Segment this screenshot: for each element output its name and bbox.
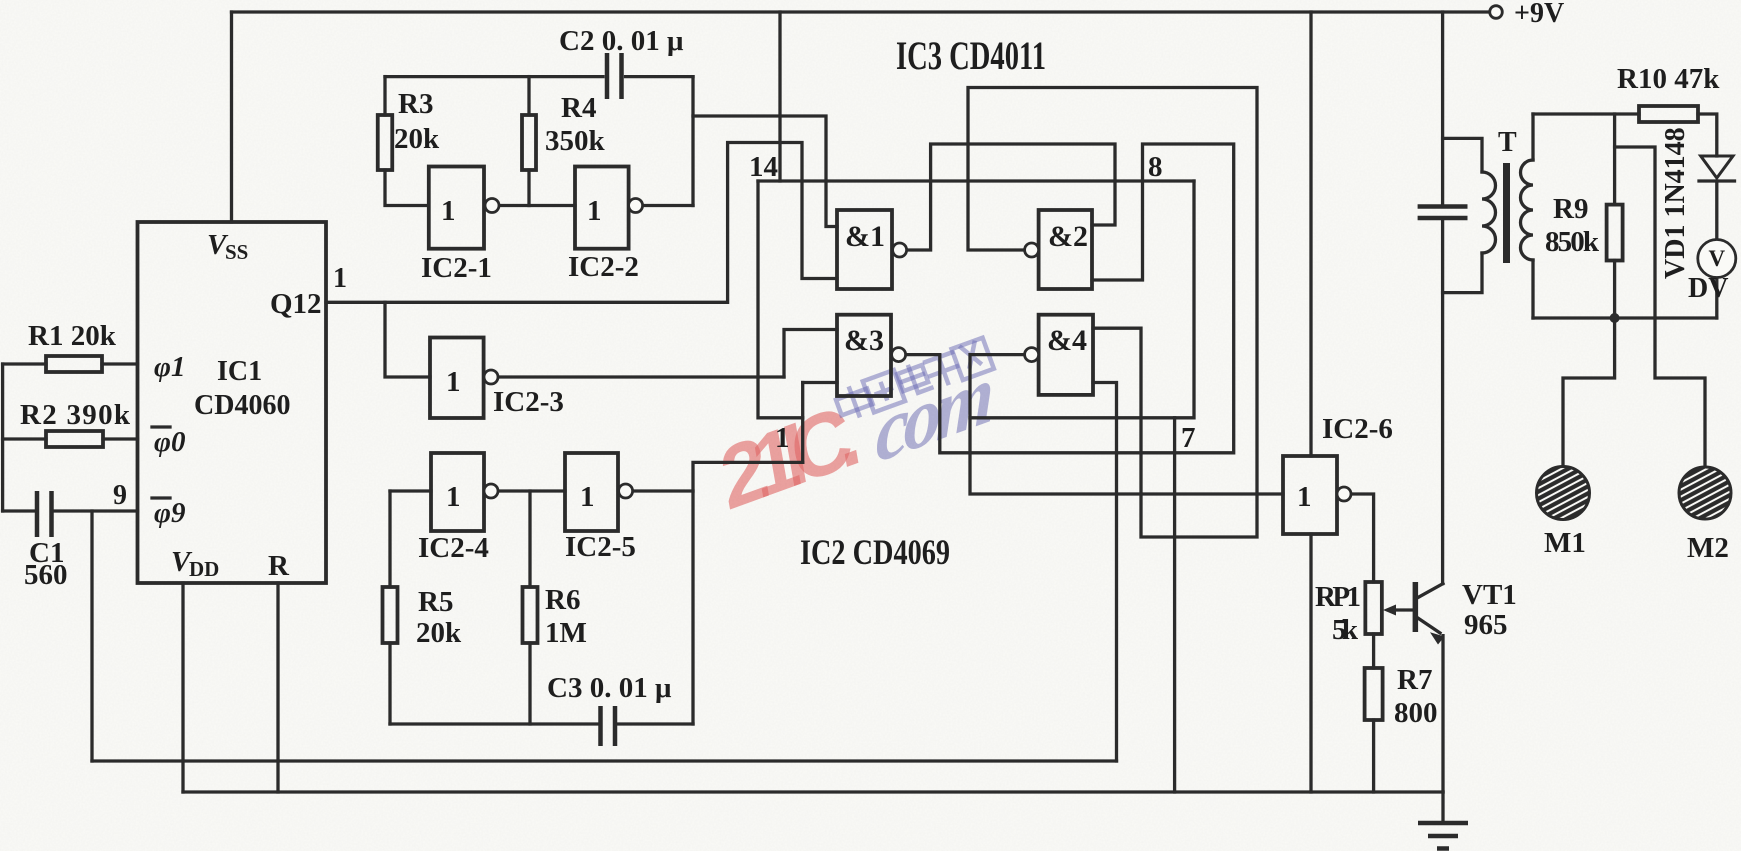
svg-text:1M: 1M [545, 617, 587, 649]
svg-text:20k: 20k [394, 123, 440, 155]
svg-text:VT1: VT1 [1462, 579, 1517, 611]
svg-text:R5: R5 [418, 586, 453, 618]
svg-text:850k: 850k [1545, 226, 1600, 258]
svg-text:R1 20k: R1 20k [28, 320, 117, 352]
svg-text:+9V: +9V [1514, 0, 1564, 29]
svg-text:C3 0. 01 μ: C3 0. 01 μ [547, 672, 672, 704]
svg-text:CD4060: CD4060 [194, 390, 290, 421]
svg-text:M2: M2 [1687, 532, 1729, 564]
svg-text:Q12: Q12 [270, 288, 322, 320]
svg-text:&2: &2 [1048, 220, 1088, 253]
svg-text:1: 1 [441, 195, 456, 227]
svg-text:IC2 CD4069: IC2 CD4069 [800, 532, 950, 572]
svg-text:1: 1 [775, 422, 790, 454]
svg-text:R2 390k: R2 390k [20, 399, 131, 431]
svg-text:DV: DV [1688, 273, 1728, 304]
svg-text:14: 14 [749, 151, 778, 183]
svg-text:1: 1 [580, 481, 595, 513]
svg-text:C2 0. 01 μ: C2 0. 01 μ [559, 25, 684, 57]
svg-text:VD1 1N4148: VD1 1N4148 [1660, 127, 1691, 279]
svg-text:R9: R9 [1553, 193, 1588, 225]
svg-text:&1: &1 [845, 220, 885, 253]
svg-text:&4: &4 [1047, 324, 1087, 357]
svg-text:IC2-6: IC2-6 [1322, 413, 1393, 445]
svg-text:7: 7 [1181, 422, 1196, 454]
svg-text:560: 560 [24, 559, 68, 591]
svg-text:965: 965 [1464, 609, 1508, 641]
svg-text:φ9: φ9 [154, 497, 185, 529]
svg-text:350k: 350k [545, 125, 606, 157]
svg-text:R10 47k: R10 47k [1617, 63, 1720, 95]
svg-text:1: 1 [587, 195, 602, 227]
svg-text:R3: R3 [398, 88, 433, 120]
svg-text:V: V [1708, 246, 1725, 271]
svg-text:SS: SS [225, 240, 248, 264]
svg-text:1: 1 [446, 481, 461, 513]
svg-text:R: R [268, 550, 290, 582]
svg-text:R4: R4 [561, 92, 596, 124]
svg-text:5k: 5k [1332, 614, 1359, 646]
svg-text:M1: M1 [1544, 527, 1586, 559]
svg-text:T: T [1498, 127, 1517, 158]
svg-text:IC3 CD4011: IC3 CD4011 [896, 33, 1046, 78]
svg-text:800: 800 [1394, 697, 1438, 729]
svg-text:IC2-4: IC2-4 [418, 532, 489, 564]
svg-text:1: 1 [1297, 481, 1312, 513]
svg-text:IC1: IC1 [217, 356, 262, 387]
svg-text:IC2-5: IC2-5 [565, 531, 636, 563]
svg-text:1: 1 [333, 263, 347, 294]
svg-text:φ0: φ0 [154, 426, 185, 458]
svg-text:IC2-3: IC2-3 [493, 386, 564, 418]
svg-text:1: 1 [446, 366, 461, 398]
svg-text:20k: 20k [416, 617, 462, 649]
svg-text:8: 8 [1148, 151, 1163, 183]
svg-text:R7: R7 [1397, 664, 1432, 696]
svg-text:IC2-1: IC2-1 [421, 252, 492, 284]
svg-text:&3: &3 [844, 324, 884, 357]
svg-text:R6: R6 [545, 584, 580, 616]
svg-text:IC2-2: IC2-2 [568, 251, 639, 283]
svg-text:DD: DD [189, 557, 219, 581]
svg-text:φ1: φ1 [154, 351, 185, 383]
svg-text:RP1: RP1 [1315, 581, 1361, 613]
svg-text:9: 9 [113, 480, 127, 511]
